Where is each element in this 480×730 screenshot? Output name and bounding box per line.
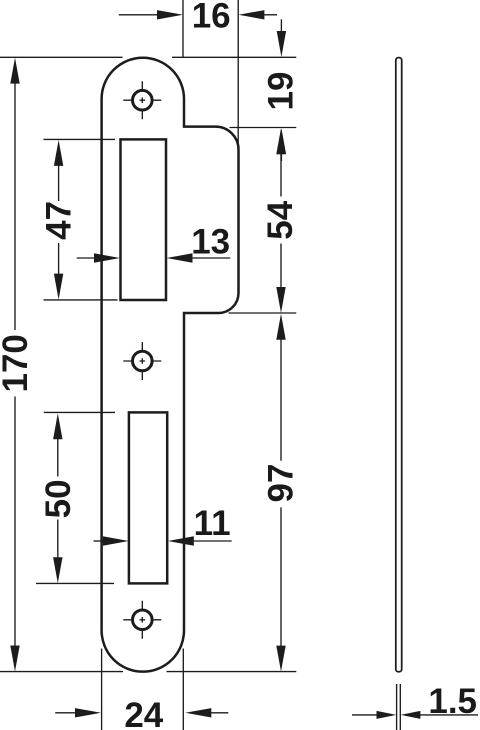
extension line slot2 bottom	[36, 582, 114, 584]
extension line 1.5 right	[399, 684, 401, 730]
svg-text:47: 47	[40, 201, 79, 240]
svg-text:97: 97	[261, 464, 300, 503]
svg-text:16: 16	[192, 0, 231, 36]
svg-text:13: 13	[191, 223, 230, 262]
extension line slot2 top	[44, 411, 115, 413]
extension line plate bottom tangent	[0, 671, 296, 673]
extension line lip top	[230, 127, 297, 129]
svg-text:19: 19	[262, 72, 301, 111]
slot 1 (upper latch cutout)	[121, 139, 167, 300]
dim 24 arrow right	[210, 712, 228, 714]
dim 97 line and arrows	[280, 339, 282, 646]
plate front view outline	[102, 58, 239, 672]
svg-text:11: 11	[194, 504, 231, 543]
dim 13 arrow right	[192, 257, 231, 259]
extension line plate top tangent	[0, 56, 296, 58]
dim 16 arrow left	[119, 14, 158, 16]
hole middle crosshair	[123, 342, 161, 380]
extension line 16 left	[182, 0, 184, 57]
dim 170 line and arrows	[14, 83, 16, 646]
svg-text:24: 24	[124, 696, 163, 730]
hole bottom crosshair	[123, 601, 161, 639]
extension line slot1 top	[44, 138, 116, 140]
hole bottom circle	[133, 610, 153, 630]
svg-text:50: 50	[39, 479, 78, 518]
hole top circle	[133, 90, 153, 110]
extension line lip bottom	[229, 312, 297, 314]
dim 1.5 arrow right	[420, 714, 478, 716]
side view plate profile	[396, 58, 402, 672]
dim 47 line and arrows	[58, 165, 60, 275]
extension line 24 left	[101, 649, 103, 730]
dim 1.5 arrow left	[352, 714, 378, 716]
dim 24 arrow left	[55, 712, 76, 714]
extension line 24 right	[182, 649, 184, 730]
slot 2 (lower deadbolt cutout)	[129, 412, 167, 583]
hole top crosshair	[123, 81, 161, 119]
dim 54 line and arrows	[280, 153, 282, 288]
extension line 16 right	[237, 0, 239, 148]
svg-text:1.5: 1.5	[428, 682, 477, 721]
extension line slot1 bottom	[44, 299, 118, 301]
dim 13 arrow left	[77, 257, 95, 259]
extension line 1.5 left	[396, 684, 398, 730]
dim 50 line and arrows	[57, 438, 59, 558]
dim 11 arrow right	[193, 540, 232, 542]
dim 11 arrow left	[94, 540, 105, 542]
dim 19 arrow bottom	[280, 153, 282, 161]
svg-text:170: 170	[0, 334, 35, 392]
dim 16 arrow right	[263, 14, 277, 16]
svg-text:54: 54	[261, 200, 300, 239]
dim 19 arrow top	[280, 19, 282, 32]
hole middle circle	[133, 351, 153, 371]
